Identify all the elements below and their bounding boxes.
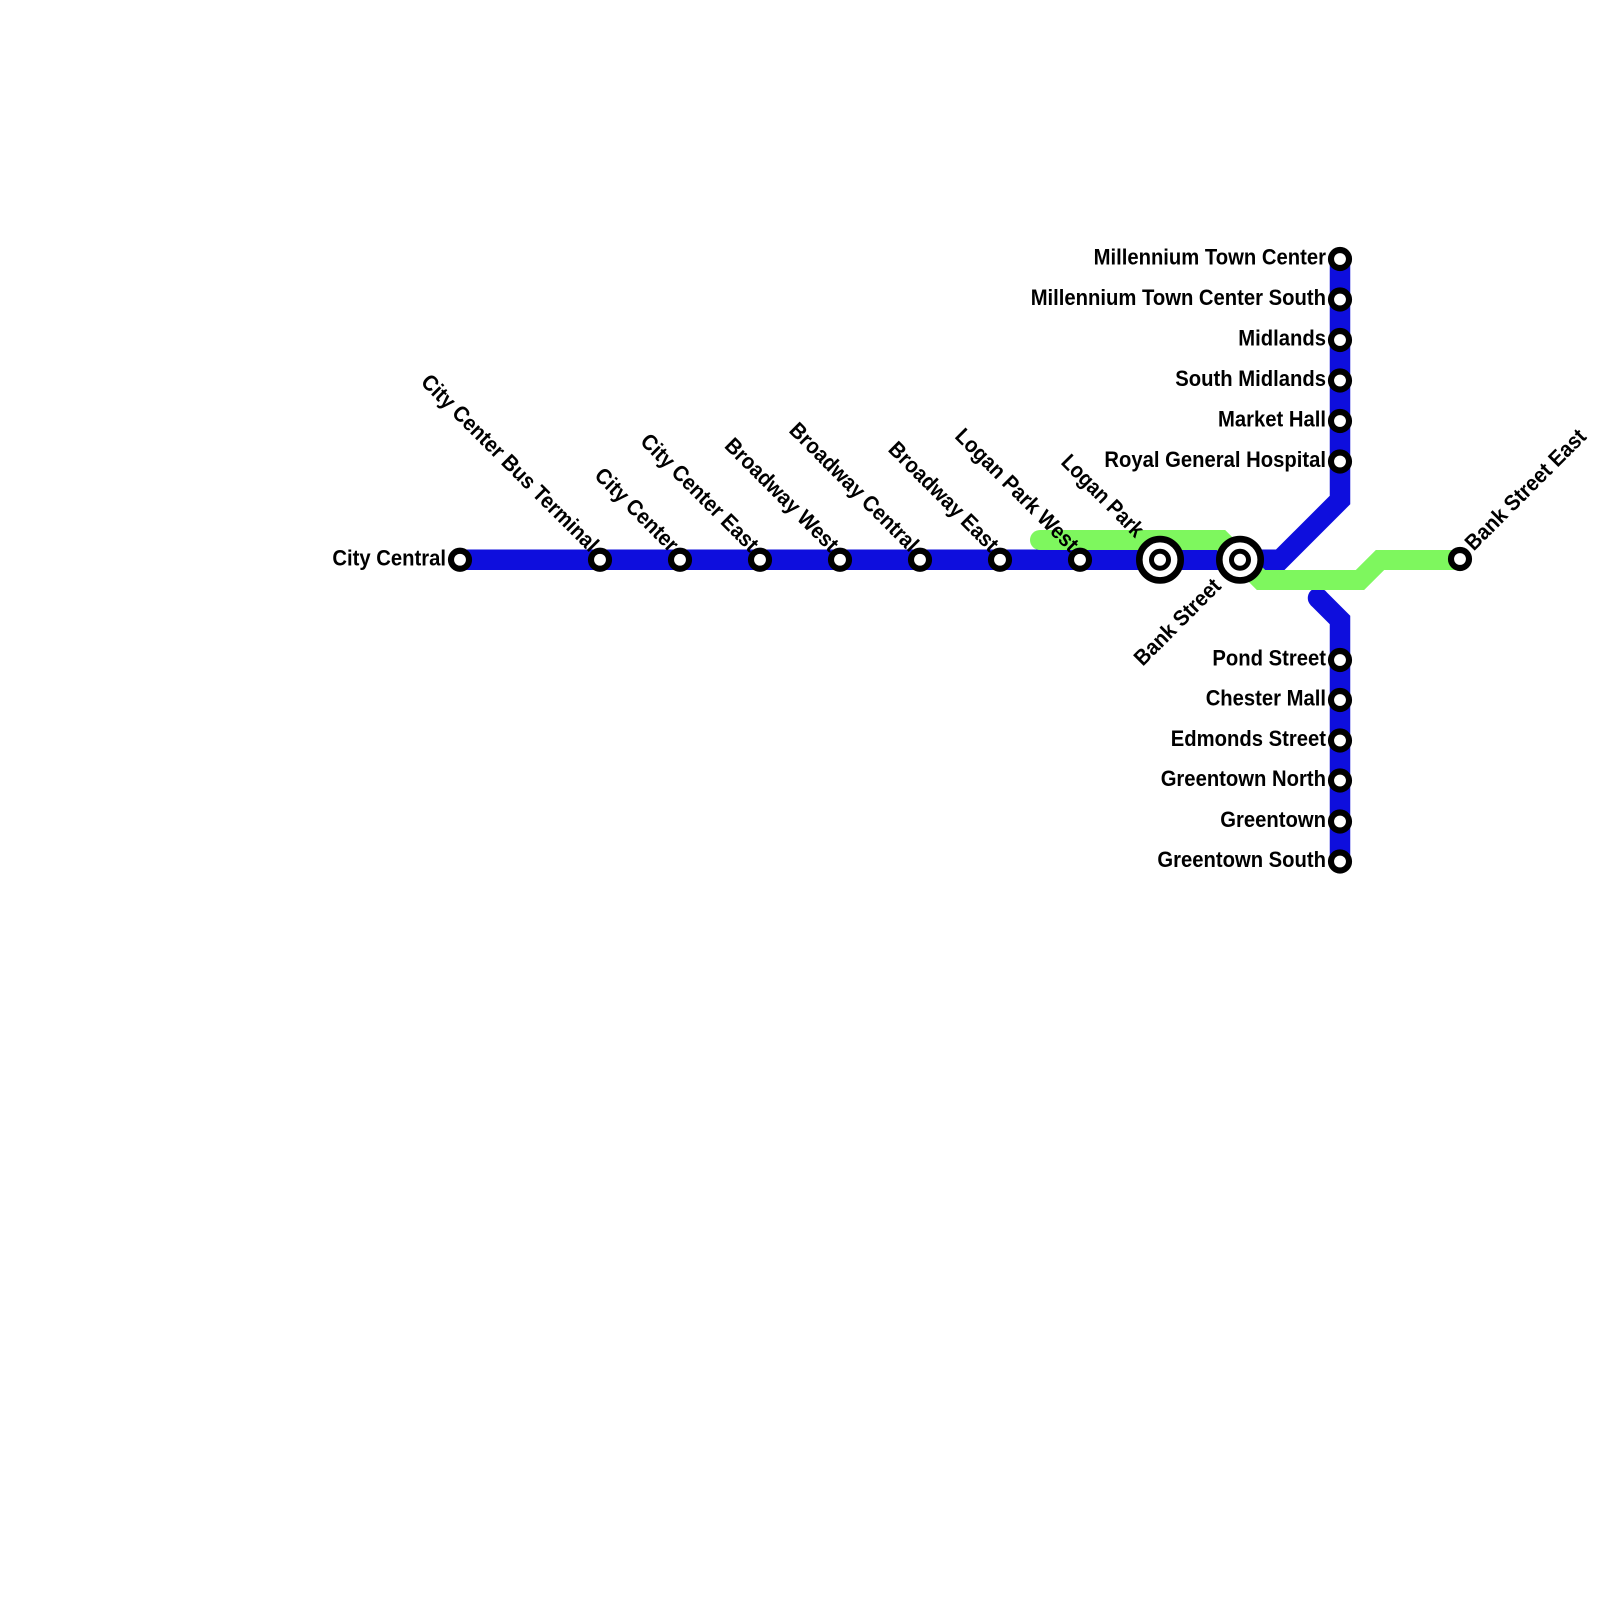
station Royal General Hospital [1331, 453, 1349, 471]
label Broadway West [720, 433, 844, 557]
station Midlands [1331, 331, 1349, 349]
svg-text:City Center Bus Terminal: City Center Bus Terminal [416, 369, 604, 557]
green line: Logan Park West area to Bank Street East [1040, 540, 1460, 580]
svg-text:Midlands: Midlands [1238, 326, 1326, 351]
svg-text:Greentown North: Greentown North [1161, 766, 1326, 791]
blue line B: Bank Street to Greentown South [1308, 588, 1329, 609]
svg-text:Bank Street East: Bank Street East [1460, 423, 1592, 555]
station Market Hall [1331, 412, 1349, 430]
label Bank Street East [1460, 423, 1592, 555]
svg-text:Edmonds Street: Edmonds Street [1171, 726, 1327, 751]
label Bank Street [1129, 573, 1227, 671]
station Broadway West [831, 551, 849, 569]
svg-text:Market Hall: Market Hall [1218, 407, 1326, 432]
label Logan Park [1056, 449, 1149, 542]
svg-text:South Midlands: South Midlands [1175, 366, 1326, 391]
station Edmonds Street [1331, 732, 1349, 750]
station City Central [451, 551, 469, 569]
interchange Bank Street [1219, 539, 1260, 580]
station City Center East [751, 551, 769, 569]
station Pond Street [1331, 651, 1349, 669]
station City Center [671, 551, 689, 569]
svg-text:Millennium Town Center South: Millennium Town Center South [1031, 285, 1326, 310]
station Logan Park West [1071, 551, 1089, 569]
station Millennium Town Center South [1331, 291, 1349, 309]
svg-text:Millennium Town Center: Millennium Town Center [1094, 245, 1327, 270]
station Greentown North [1331, 772, 1349, 790]
label City Center Bus Terminal [416, 369, 604, 557]
svg-text:Greentown: Greentown [1220, 807, 1326, 832]
label City Center East [636, 428, 765, 557]
station Broadway Central [911, 551, 929, 569]
station Greentown [1331, 813, 1349, 831]
station Chester Mall [1331, 691, 1349, 709]
interchange Logan Park [1139, 539, 1180, 580]
station Broadway East [991, 551, 1009, 569]
station Millennium Town Center [1331, 250, 1349, 268]
svg-text:Greentown South: Greentown South [1157, 847, 1326, 872]
station Bank Street East [1451, 550, 1469, 568]
label City Center [590, 463, 684, 557]
station Greentown South [1331, 853, 1349, 871]
station City Center Bus Terminal [591, 551, 609, 569]
svg-text:Pond Street: Pond Street [1212, 646, 1326, 671]
green line cap [1030, 530, 1050, 550]
svg-text:Chester Mall: Chester Mall [1206, 686, 1326, 711]
svg-text:City Central: City Central [332, 546, 446, 571]
label Broadway East [884, 436, 1005, 557]
blue line A: City Central to Millennium Town Center [460, 259, 1340, 560]
station South Midlands [1331, 372, 1349, 390]
label Logan Park West [950, 423, 1084, 557]
label Broadway Central [785, 417, 924, 556]
svg-text:Royal General Hospital: Royal General Hospital [1104, 447, 1326, 472]
